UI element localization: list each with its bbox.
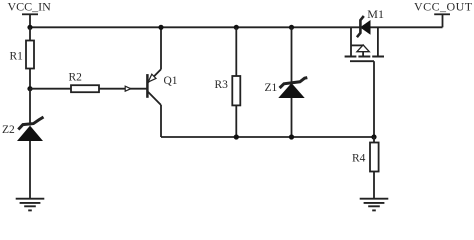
- zener diode Z1: [265, 78, 308, 98]
- wire node to R2: [30, 88, 71, 90]
- ground left: [16, 199, 45, 211]
- svg-text:M1: M1: [367, 7, 384, 21]
- svg-text:Q1: Q1: [164, 75, 178, 87]
- svg-text:R3: R3: [215, 79, 229, 91]
- source lead: [350, 27, 352, 56]
- node Z1 top: [289, 25, 294, 30]
- wire rail to Z1: [291, 27, 293, 83]
- wire rail to R3: [235, 27, 237, 76]
- channel bar drain: [372, 56, 384, 58]
- wire R2 to Q1 base: [99, 88, 147, 90]
- zener diode Z2: [2, 117, 44, 141]
- channel bar body: [358, 56, 370, 58]
- transistor Q1: [147, 27, 177, 137]
- substrate arrow: [357, 45, 369, 52]
- svg-text:Z2: Z2: [2, 124, 15, 136]
- ground right: [360, 199, 389, 211]
- channel bar source: [345, 56, 357, 58]
- wire VCC_IN node to R1: [29, 27, 31, 40]
- body connection: [351, 44, 363, 46]
- svg-text:R1: R1: [10, 50, 24, 62]
- MOSFET M1: [345, 7, 384, 137]
- resistor R1: [10, 41, 35, 69]
- wire R3 to bottom rail: [235, 105, 237, 137]
- wire top rail VCC_IN to VCC_OUT: [30, 26, 443, 28]
- flow arrow on base wire: [125, 86, 131, 91]
- wire Z1 to bottom rail: [291, 98, 293, 137]
- gate bar: [350, 60, 374, 62]
- svg-text:R4: R4: [352, 153, 366, 165]
- node R3 bottom: [234, 134, 239, 139]
- body diode of M1: [360, 20, 371, 35]
- svg-text:VCC_IN: VCC_IN: [8, 0, 52, 14]
- node Z1 bottom: [289, 134, 294, 139]
- svg-text:R2: R2: [69, 72, 83, 84]
- node Q1 emitter on rail: [158, 25, 163, 30]
- resistor R4: [352, 143, 379, 172]
- node VCC_IN junction: [27, 25, 32, 30]
- node R1/R2/Z2 junction: [27, 86, 32, 91]
- wire Z2 to ground: [29, 141, 31, 199]
- svg-text:VCC_OUT: VCC_OUT: [414, 0, 473, 14]
- gate lead: [373, 61, 375, 137]
- wire R1 to base node: [29, 69, 31, 89]
- wire bottom gate rail: [161, 136, 374, 138]
- wire node to Z2: [29, 89, 31, 126]
- node R3 top: [234, 25, 239, 30]
- wire junction to R4: [373, 137, 375, 143]
- resistor R3: [215, 76, 241, 105]
- wire R4 to ground: [373, 172, 375, 199]
- power port VCC_IN: [8, 0, 52, 27]
- node gate/R4 junction: [371, 134, 376, 139]
- svg-text:Z1: Z1: [265, 82, 278, 94]
- power port VCC_OUT: [414, 0, 473, 27]
- drain lead: [377, 27, 379, 56]
- resistor R2: [69, 72, 100, 93]
